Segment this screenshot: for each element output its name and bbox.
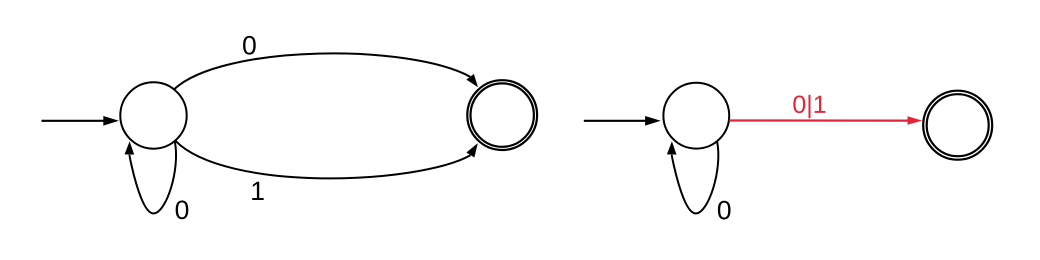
right automaton: self loop edge on p0 bbox=[672, 142, 719, 214]
right automaton: start arrow head bbox=[645, 116, 661, 126]
right automaton: accepting state inner circle bbox=[927, 94, 989, 156]
right automaton: self loop arrow head bbox=[667, 141, 677, 154]
left automaton: self loop arrow head bbox=[125, 141, 135, 154]
left automaton: start arrow head bbox=[103, 116, 119, 126]
right automaton: red edge label "0|1" bbox=[793, 95, 825, 118]
left automaton: edge 0 arrow head bbox=[466, 74, 478, 87]
right automaton: self loop label "0" bbox=[718, 201, 731, 220]
left automaton: state q0 circle bbox=[120, 82, 186, 148]
left automaton: transition edge 1 (q0 to accept, lower curve) bbox=[175, 141, 470, 179]
right automaton: start arrow shaft bbox=[584, 120, 646, 122]
left automaton: edge 1 arrow head bbox=[466, 143, 477, 157]
left automaton: self loop edge on q0 bbox=[129, 142, 176, 214]
left automaton: edge 1 label "1" bbox=[252, 182, 263, 200]
right automaton: red edge arrow head bbox=[908, 116, 923, 125]
left automaton: transition edge 0 (q0 to accept, upper curve) bbox=[174, 53, 470, 89]
left automaton: accepting state outer circle bbox=[467, 80, 537, 150]
left automaton: accepting state inner circle bbox=[471, 83, 534, 146]
right automaton: accepting state outer circle bbox=[923, 91, 992, 160]
left automaton: edge 0 label "0" bbox=[243, 36, 256, 55]
left automaton: start arrow shaft bbox=[42, 120, 105, 122]
right automaton: red transition edge 0|1 (p0 to accept) bbox=[729, 119, 908, 121]
right automaton: state p0 circle bbox=[663, 83, 729, 149]
left automaton: self loop label "0" bbox=[176, 200, 189, 219]
